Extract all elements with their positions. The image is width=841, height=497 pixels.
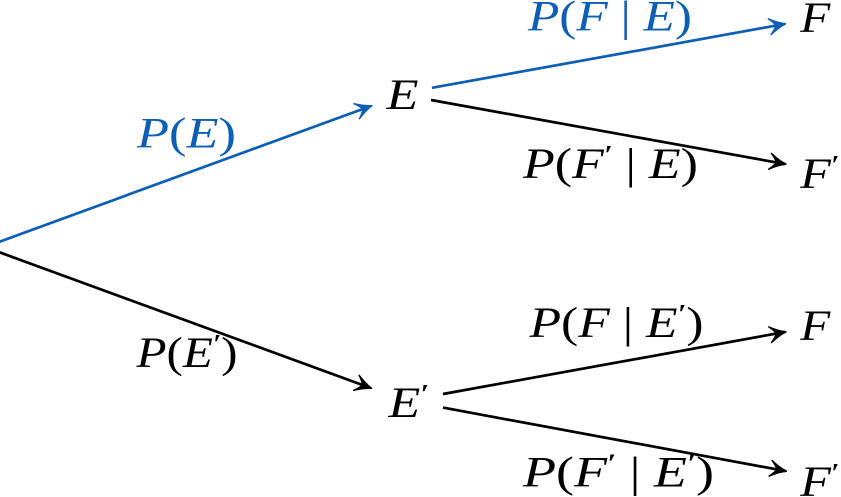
svg-text:F′: F′: [799, 150, 839, 198]
svg-text:F: F: [799, 302, 832, 350]
svg-text:F: F: [799, 0, 832, 42]
svg-text:P(F | E): P(F | E): [527, 0, 692, 41]
wire E to F (blue branch): [432, 24, 785, 88]
svg-text:P(F′ | E): P(F′ | E): [522, 140, 698, 188]
arrowhead into F' (bottom): [769, 460, 788, 479]
wire E' to F: [443, 332, 785, 394]
wire E' to F': [443, 408, 786, 471]
wire E to F': [431, 100, 785, 164]
svg-text:P(F′ | E′): P(F′ | E′): [522, 449, 714, 497]
svg-text:P(F | E′): P(F | E′): [528, 299, 703, 347]
svg-text:E: E: [385, 71, 419, 119]
wire root to E': [0, 250, 371, 388]
svg-text:F′: F′: [799, 458, 839, 497]
svg-text:E′: E′: [387, 379, 429, 427]
svg-text:P(E′): P(E′): [135, 329, 237, 377]
arrowhead into F': [769, 153, 788, 172]
wire root to E (blue branch): [0, 106, 371, 244]
svg-text:P(E): P(E): [136, 110, 236, 158]
arrowhead into E': [354, 375, 375, 396]
arrowhead into F: [768, 16, 787, 35]
arrowhead into F (lower): [769, 324, 788, 343]
arrowhead into E: [354, 98, 375, 119]
